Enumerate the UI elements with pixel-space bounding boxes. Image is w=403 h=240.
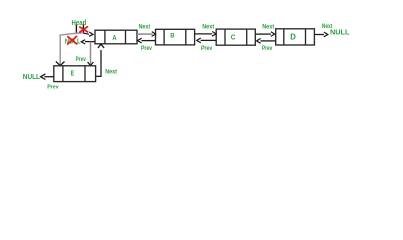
arrowhead prev D->C	[257, 39, 261, 44]
svg-text:D: D	[290, 33, 296, 42]
wire next C->D	[255, 33, 271, 35]
wire E.next->A	[96, 50, 101, 76]
svg-text:NULL: NULL	[23, 74, 40, 81]
arrowhead prev B->A	[138, 38, 142, 43]
red X over NULL	[67, 36, 77, 45]
arrowhead E.prev->NULL left	[41, 74, 46, 80]
wire old head pointer vertical (crossed out)	[82, 25, 84, 33]
wire new head pointer vertical	[75, 25, 77, 34]
arrowhead E.next->A up	[98, 44, 104, 48]
wire new head branch to E	[60, 33, 83, 65]
arrowhead old head->A	[89, 32, 93, 36]
wire new A.prev->E down	[90, 42, 92, 65]
node A box	[95, 30, 137, 44]
svg-text:Next: Next	[139, 24, 151, 31]
svg-text:Prev: Prev	[76, 56, 87, 63]
arrowhead A.prev->NULL left	[81, 40, 85, 44]
svg-text:A: A	[112, 33, 117, 42]
node D box	[276, 29, 315, 45]
wire prev B->A	[141, 40, 155, 42]
svg-text:NULL: NULL	[330, 30, 350, 37]
wire old head->A arrow stub (crossed out)	[83, 33, 89, 34]
arrowhead next B->C	[212, 32, 216, 37]
svg-text:Prev: Prev	[47, 84, 59, 90]
wire next A->B	[137, 33, 153, 35]
svg-text:Next: Next	[202, 24, 215, 31]
wire prev D->C	[260, 40, 275, 42]
svg-text:Next: Next	[262, 23, 275, 30]
arrowhead prev C->B	[197, 38, 201, 43]
node B box	[156, 29, 195, 45]
wire next D->NULL	[314, 34, 324, 36]
red X over old head arrow	[79, 26, 88, 32]
arrowhead next D->NULL	[324, 32, 328, 37]
node E box	[54, 66, 96, 82]
wire E.prev->NULL	[44, 76, 53, 78]
wire old A.prev->NULL arrow	[85, 41, 95, 43]
node C box	[216, 29, 255, 45]
svg-text:B: B	[170, 33, 174, 40]
svg-text:Next: Next	[105, 68, 118, 75]
svg-text:Head: Head	[72, 18, 87, 27]
arrowhead head->E down	[56, 62, 65, 66]
svg-text:E: E	[71, 68, 75, 77]
arrowhead next C->D	[271, 32, 275, 37]
arrowhead next A->B	[152, 32, 156, 37]
arrowhead A.prev->E down	[88, 62, 94, 66]
svg-text:Prev: Prev	[201, 45, 213, 52]
svg-text:C: C	[231, 32, 236, 41]
svg-text:Prev: Prev	[262, 45, 273, 52]
svg-text:Prev: Prev	[141, 45, 152, 52]
wire prev C->B	[201, 39, 217, 41]
wire next B->C	[195, 33, 213, 35]
